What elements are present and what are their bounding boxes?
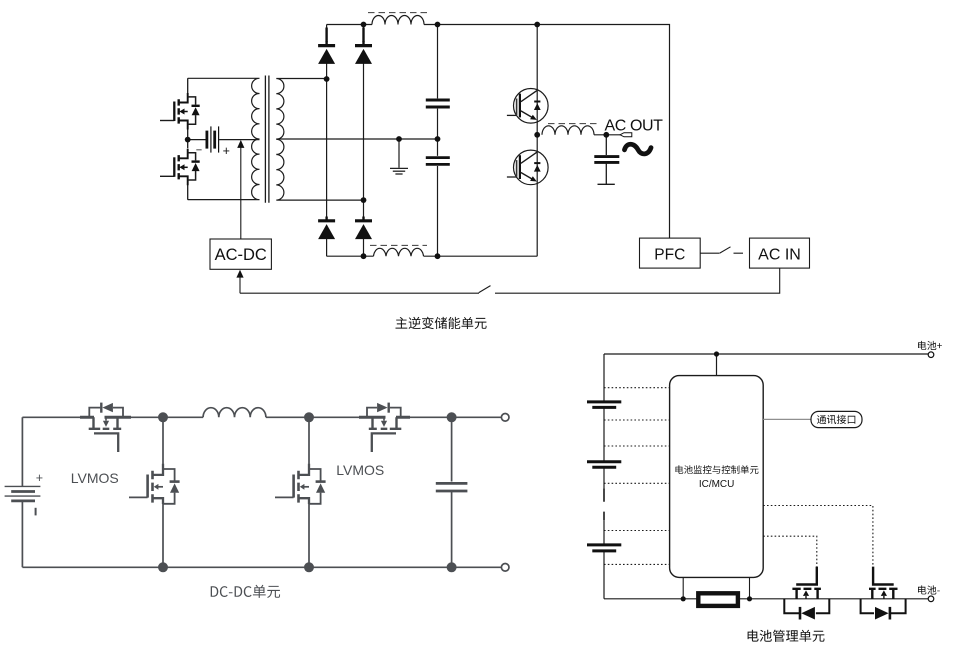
svg-text:AC IN: AC IN	[758, 246, 801, 263]
svg-text:IC/MCU: IC/MCU	[699, 479, 735, 490]
svg-text:LVMOS: LVMOS	[71, 470, 119, 486]
svg-text:+: +	[223, 144, 230, 158]
svg-text:AC-DC: AC-DC	[215, 246, 267, 264]
svg-text:+: +	[36, 471, 43, 485]
svg-text:AC OUT: AC OUT	[605, 117, 664, 134]
svg-text:PFC: PFC	[654, 246, 685, 263]
svg-text:LVMOS: LVMOS	[336, 462, 384, 478]
svg-text:−: −	[196, 145, 202, 157]
